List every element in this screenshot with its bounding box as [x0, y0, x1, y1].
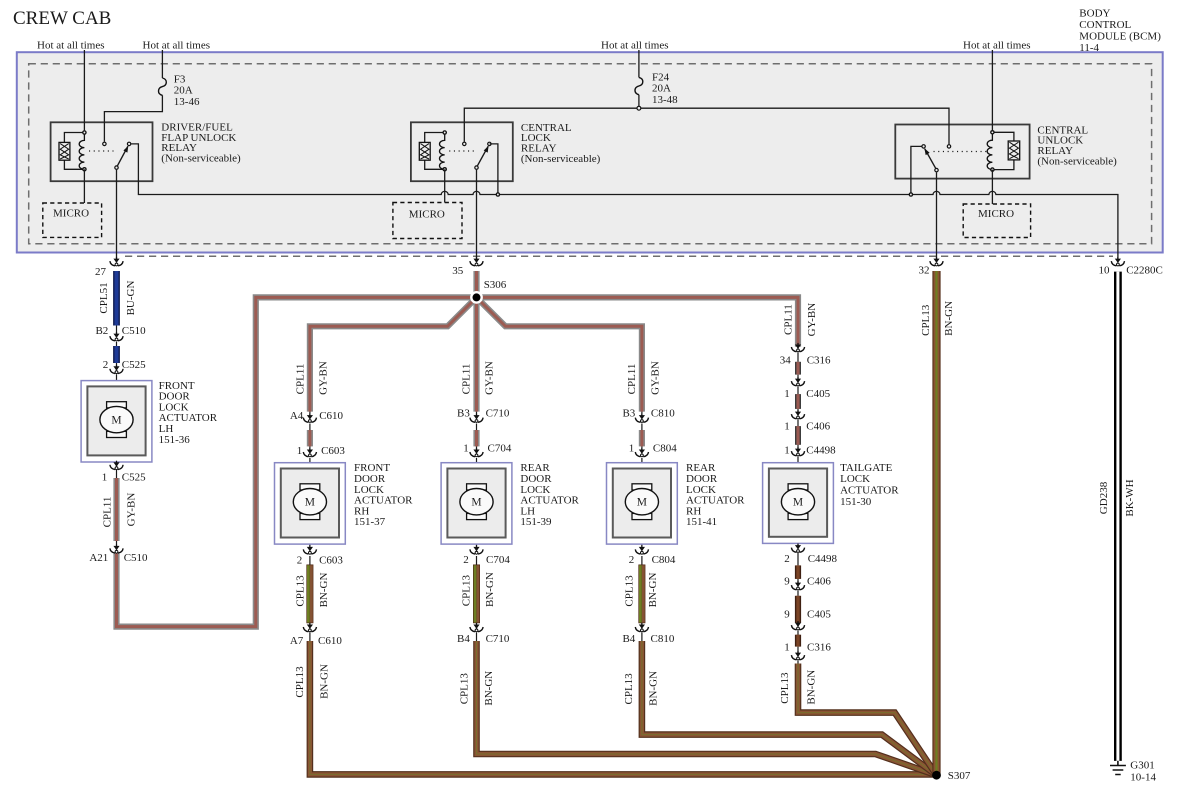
motor M of rear door lock actuator RH: [632, 484, 652, 490]
svg-text:S307: S307: [948, 770, 971, 782]
svg-text:B4: B4: [622, 633, 635, 645]
svg-text:1: 1: [784, 421, 790, 433]
BCM pin 32 connector: [930, 257, 943, 266]
svg-text:CPL13: CPL13: [460, 575, 472, 607]
svg-text:B3: B3: [622, 407, 635, 419]
BN-GN wire CPL13 tailgate to S307: [798, 664, 937, 776]
svg-text:TAILGATELOCKACTUATOR151-30: TAILGATELOCKACTUATOR151-30: [840, 462, 899, 508]
wire from F24 junction to K2 terminal: [464, 108, 637, 142]
svg-text:BK-WH: BK-WH: [1124, 479, 1136, 516]
GY-BN wire segment rear LH door: [473, 430, 479, 446]
connector C804 1: [635, 448, 648, 457]
svg-text:1: 1: [784, 642, 790, 654]
fuse F3: [159, 78, 167, 95]
K3 switch armature: [925, 149, 936, 169]
bus junction at K2 branch: [496, 192, 501, 197]
wire K3 coil to MICRO 3: [991, 170, 993, 204]
thin stubs tailgate upper column: [797, 347, 799, 463]
svg-text:CPL11: CPL11: [102, 497, 114, 528]
svg-text:FRONTDOORLOCKACTUATORLH151-36: FRONTDOORLOCKACTUATORLH151-36: [159, 380, 218, 446]
svg-text:CPL13: CPL13: [294, 666, 306, 698]
svg-text:CPL13: CPL13: [624, 575, 636, 607]
thin stubs below actuator LH: [116, 462, 118, 478]
K1 fuse-side terminal: [103, 142, 106, 145]
motor M of front door lock actuator LH: [107, 402, 127, 408]
K2 switch armature: [477, 146, 488, 166]
junction node below F24: [637, 106, 641, 110]
svg-text:35: 35: [452, 265, 464, 277]
hot-at-all-times feed wire to K3 coil: [991, 50, 993, 130]
svg-text:GY-BN: GY-BN: [484, 361, 496, 395]
thin stubs front RH column: [309, 412, 311, 463]
central lock relay K2 resistor branch wires: [425, 133, 445, 170]
svg-text:C405: C405: [807, 608, 831, 620]
K3 switch pivot terminal: [935, 168, 938, 171]
svg-text:9: 9: [784, 576, 790, 588]
BU-GN wire C510 to C525: [113, 346, 120, 363]
svg-text:CPL51: CPL51: [98, 282, 110, 313]
svg-text:1: 1: [629, 442, 635, 454]
BU-GN wire CPL51 pin 27 to C510: [113, 271, 120, 326]
connector C710 B4: [470, 623, 483, 632]
thin stubs rear LH column: [476, 412, 478, 463]
svg-text:Hot at all times: Hot at all times: [143, 39, 211, 51]
svg-text:GY-BN: GY-BN: [317, 361, 329, 395]
BN-GN wire CPL13 rear RH door to S307: [642, 641, 937, 775]
svg-text:C810: C810: [651, 633, 675, 645]
K1 actuation dotted line: [89, 150, 114, 152]
svg-text:BN-GN: BN-GN: [647, 573, 659, 608]
svg-text:C610: C610: [319, 410, 343, 422]
wire from K1 pivot to pin 27: [116, 170, 118, 262]
wire stub into C510: [116, 326, 118, 335]
K2 fuse-side terminal: [463, 142, 466, 145]
thin stubs below rear LH actuator: [476, 544, 478, 641]
relay coil, central lock relay K2: [439, 133, 444, 170]
svg-text:C704: C704: [488, 442, 512, 454]
connector C603 1: [303, 448, 316, 457]
svg-text:CPL13: CPL13: [459, 673, 471, 705]
MICRO driver box 3: [963, 204, 1030, 238]
svg-text:FRONTDOORLOCKACTUATORRH151-37: FRONTDOORLOCKACTUATORRH151-37: [354, 462, 413, 528]
relay coil, driver/fuel flap unlock relay K1: [79, 133, 84, 170]
svg-text:C710: C710: [486, 633, 510, 645]
connector C704 1: [470, 448, 483, 457]
svg-text:BN-GN: BN-GN: [805, 670, 817, 705]
svg-text:2: 2: [297, 555, 303, 567]
relay box: central unlock relay K3: [895, 125, 1029, 179]
BCM module box (blue): [17, 52, 1163, 252]
ground symbol G301: [1110, 761, 1126, 775]
K2 actuation dotted line: [449, 150, 476, 152]
svg-text:2: 2: [784, 553, 790, 565]
BCM pin 27 connector: [110, 257, 123, 266]
svg-text:C810: C810: [651, 407, 675, 419]
thin stubs below rear RH actuator: [641, 544, 643, 641]
svg-text:C525: C525: [122, 471, 146, 483]
thin stubs rear RH column: [641, 412, 643, 463]
svg-text:BN-GN: BN-GN: [319, 664, 331, 699]
BN-GN wire CPL13 pin 32 to S307: [932, 271, 940, 775]
connector C525 pin 2: [110, 365, 123, 374]
svg-text:GD238: GD238: [1098, 481, 1110, 514]
svg-text:C316: C316: [807, 642, 831, 654]
svg-text:A7: A7: [290, 635, 304, 647]
svg-text:M: M: [305, 497, 315, 509]
connector C810 B4: [635, 623, 648, 632]
K1 armature arrowhead: [123, 146, 128, 153]
wire through rear LH actuator: [476, 463, 478, 544]
resistor (coil suppression), K3: [1008, 141, 1020, 160]
svg-text:C510: C510: [122, 325, 146, 337]
svg-text:C2280C: C2280C: [1126, 265, 1163, 277]
svg-text:1: 1: [784, 388, 790, 400]
motor M of rear door lock actuator LH: [467, 484, 487, 490]
svg-text:C406: C406: [807, 576, 831, 588]
connector C603 2: [303, 545, 316, 554]
svg-text:BN-GN: BN-GN: [483, 671, 495, 706]
svg-text:BU-GN: BU-GN: [125, 281, 137, 316]
svg-text:1: 1: [102, 471, 108, 483]
resistor (relay coil suppression), driver/fuel flap unlock relay K1: [59, 142, 70, 160]
svg-text:MICRO: MICRO: [409, 209, 445, 221]
BN-GN wire CPL13 segment below rear LH actuator: [475, 565, 478, 624]
svg-text:M: M: [793, 497, 803, 509]
rear door lock actuator RH box: [607, 463, 678, 544]
svg-text:CPL13: CPL13: [623, 673, 635, 705]
K1 switch pivot terminal: [115, 166, 118, 169]
GY-BN wire CPL11 loop from A21/C510 to splice S306: [117, 297, 472, 626]
svg-text:M: M: [111, 415, 121, 427]
svg-text:CPL11: CPL11: [783, 304, 795, 335]
BN-GN wire CPL13 segment below rear RH actuator: [640, 565, 643, 624]
svg-text:C804: C804: [653, 442, 677, 454]
K2 armature arrowhead: [484, 146, 489, 153]
K3 armature arrowhead: [924, 148, 929, 155]
svg-text:CPL11: CPL11: [294, 364, 306, 395]
connector C810 B3: [635, 414, 648, 423]
svg-text:9: 9: [784, 608, 790, 620]
K2 switch pivot terminal: [475, 166, 478, 169]
K3 switch output terminal: [922, 145, 925, 148]
splice S306: [470, 291, 483, 304]
BN-GN wire CPL13 segment below front RH actuator: [308, 565, 311, 624]
svg-text:10: 10: [1099, 265, 1111, 277]
svg-text:A21: A21: [89, 552, 108, 564]
svg-text:M: M: [637, 497, 647, 509]
svg-text:CPL13: CPL13: [295, 575, 307, 607]
BK-WH wire GD228 pin 10 to ground G301: [1114, 272, 1122, 761]
K1 switch output terminal: [127, 142, 130, 145]
svg-text:BODYCONTROLMODULE (BCM)11-4: BODYCONTROLMODULE (BCM)11-4: [1079, 8, 1161, 55]
svg-text:CPL11: CPL11: [461, 364, 473, 395]
BN-GN wire segment C406-C405 (tailgate): [795, 596, 801, 623]
bus junction at K3 branch: [909, 192, 914, 197]
svg-text:GY-BN: GY-BN: [649, 361, 661, 395]
connector C510 pin A21: [110, 544, 123, 553]
svg-text:Hot at all times: Hot at all times: [601, 39, 669, 51]
svg-text:Hot at all times: Hot at all times: [37, 39, 105, 51]
relay coil, K3: [987, 132, 992, 169]
wire K1 coil to MICRO 1: [83, 169, 85, 203]
wire from fuse F3 to K1 terminal: [104, 95, 162, 142]
svg-text:GY-BN: GY-BN: [126, 493, 138, 527]
K1 switch armature: [117, 146, 128, 166]
svg-text:C704: C704: [486, 554, 510, 566]
svg-text:C610: C610: [318, 635, 342, 647]
K3 actuation dotted line: [934, 151, 988, 153]
svg-text:2: 2: [629, 554, 635, 566]
GY-BN wire segment rear RH door: [639, 430, 645, 446]
GY-BN wire S306 to C316 (tailgate column): [477, 297, 799, 346]
svg-text:B4: B4: [457, 633, 470, 645]
K2 switch output branch wire: [490, 144, 498, 195]
svg-text:34: 34: [780, 355, 792, 367]
svg-text:32: 32: [919, 264, 930, 276]
wire through front RH actuator: [309, 463, 311, 544]
svg-text:1: 1: [784, 445, 790, 457]
svg-text:CPL13: CPL13: [920, 304, 932, 336]
connector C510 pin B2: [110, 332, 123, 341]
rear door lock actuator LH box: [441, 463, 512, 544]
connector C525 pin 1: [110, 461, 123, 470]
connector C4498 pin 1: [791, 447, 804, 456]
wire through tailgate actuator: [797, 463, 799, 544]
GY-BN wire CPL11 actuator LH to C510: [113, 478, 119, 541]
svg-text:CREW CAB: CREW CAB: [13, 8, 111, 29]
wire K2 coil to MICRO 2: [444, 169, 446, 202]
fuse F24: [635, 77, 643, 94]
connector C804 2: [635, 545, 648, 554]
svg-text:MICRO: MICRO: [53, 207, 89, 219]
wire stub into C510 A21: [116, 541, 118, 549]
BCM pin 10 connector C2280C: [1111, 257, 1124, 266]
svg-text:DRIVER/FUELFLAP UNLOCKRELAY(No: DRIVER/FUELFLAP UNLOCKRELAY(Non-servicea…: [161, 121, 241, 164]
svg-text:C804: C804: [652, 554, 676, 566]
driver/fuel flap unlock relay K1 coil bottom junction: [82, 167, 87, 172]
svg-text:REARDOORLOCKACTUATORLH151-39: REARDOORLOCKACTUATORLH151-39: [520, 462, 579, 528]
wire from F24 junction to K3 terminal: [641, 108, 949, 144]
wire through rear RH actuator: [641, 463, 643, 544]
tailgate lock actuator box: [763, 463, 834, 544]
connector C710 B3: [470, 414, 483, 423]
relay box: driver/fuel flap unlock relay K1: [51, 122, 153, 181]
svg-text:S306: S306: [484, 279, 507, 291]
svg-text:BN-GN: BN-GN: [484, 572, 496, 607]
BN-GN wire segment C405-C316 (tailgate): [795, 635, 801, 647]
svg-text:C510: C510: [124, 552, 148, 564]
wire segment C406-C4498 (tailgate): [795, 426, 801, 445]
wire through actuator LH: [116, 381, 118, 462]
svg-text:27: 27: [95, 266, 107, 278]
GY-BN wire pin 35 to S306: [473, 271, 479, 292]
BN-GN wire CPL13 front RH door to S307: [310, 641, 937, 774]
connector C316 pin 34: [791, 343, 804, 352]
MICRO driver box 2: [393, 203, 462, 239]
svg-text:B2: B2: [95, 325, 108, 337]
hot-at-all-times feed wire to fuse F24: [638, 50, 640, 77]
connector C610 A7: [303, 623, 316, 632]
svg-text:1: 1: [463, 442, 469, 454]
thin stubs below front RH actuator: [309, 544, 311, 641]
hot-at-all-times feed wire to K1 coil: [83, 50, 85, 130]
wire segment C405-C406 (tailgate): [795, 394, 801, 409]
connector C610 A4: [303, 414, 316, 423]
svg-text:MICRO: MICRO: [978, 208, 1014, 220]
dashed harness boundary below BCM: [125, 255, 1113, 257]
wire from K2 pivot to pin 35: [476, 170, 478, 262]
K3 coil bottom junction: [990, 167, 995, 172]
svg-text:REARDOORLOCKACTUATORRH151-41: REARDOORLOCKACTUATORRH151-41: [686, 462, 745, 528]
BN-GN wire CPL13 rear LH door to S307: [477, 641, 937, 775]
svg-text:C603: C603: [319, 555, 343, 567]
svg-text:G30110-14: G30110-14: [1130, 759, 1156, 783]
GY-BN wire segment front RH door: [307, 430, 313, 446]
switch output bus wire from K1 to pin 10: [131, 144, 1118, 262]
svg-text:2: 2: [103, 359, 109, 371]
svg-text:BN-GN: BN-GN: [318, 573, 330, 608]
svg-text:B3: B3: [457, 407, 470, 419]
svg-text:C406: C406: [806, 421, 830, 433]
svg-text:C710: C710: [486, 407, 510, 419]
svg-text:C603: C603: [321, 445, 345, 457]
front door lock actuator LH box: [81, 381, 152, 462]
driver/fuel flap unlock relay K1 coil top junction: [82, 130, 87, 135]
svg-text:1: 1: [297, 445, 303, 457]
wire segment C316-C405 (tailgate): [795, 362, 801, 375]
svg-text:BN-GN: BN-GN: [943, 301, 955, 336]
BCM inner dashed boundary: [29, 64, 1152, 244]
svg-text:C4498: C4498: [808, 553, 838, 565]
thin stubs tailgate lower column: [797, 543, 799, 663]
svg-text:BN-GN: BN-GN: [648, 671, 660, 706]
K2 switch output terminal: [488, 142, 491, 145]
connector C405 pin 9: [791, 621, 804, 630]
GY-BN wire S306 to C610 (front RH column): [310, 297, 477, 411]
svg-text:A4: A4: [290, 410, 304, 422]
K3 fuse-side terminal: [947, 145, 950, 148]
GY-BN wire S306 to C810 (rear RH column): [477, 297, 642, 411]
central lock relay K2 coil bottom junction: [442, 167, 447, 172]
svg-text:CPL13: CPL13: [779, 672, 791, 704]
K3 coil top junction: [990, 130, 995, 135]
resistor (relay coil suppression), central lock relay K2: [419, 142, 430, 160]
central lock relay K2 coil top junction: [442, 130, 447, 135]
connector C316 pin 1: [791, 651, 804, 660]
connector C406 pin 9: [791, 581, 804, 590]
svg-text:C405: C405: [806, 388, 830, 400]
svg-text:C525: C525: [122, 359, 146, 371]
BCM pin 35 connector: [470, 257, 483, 266]
splice S307: [932, 771, 941, 780]
svg-text:Hot at all times: Hot at all times: [963, 39, 1031, 51]
svg-text:M: M: [471, 497, 481, 509]
K3 switch input branch wire: [911, 146, 922, 194]
K3 resistor branch wires: [992, 132, 1014, 169]
svg-text:C4498: C4498: [806, 445, 836, 457]
motor M of front door lock actuator RH: [300, 484, 320, 490]
GY-BN wire S306 down to C710 (rear LH column): [473, 297, 479, 411]
MICRO driver box 1: [43, 203, 102, 237]
svg-text:2: 2: [463, 554, 469, 566]
svg-text:CPL11: CPL11: [626, 364, 638, 395]
relay box: central lock relay K2: [411, 122, 513, 181]
hot-at-all-times feed wire to fuse F3: [161, 50, 163, 78]
BN-GN wire segment C4498-C406 (tailgate): [795, 565, 801, 579]
connector C405 pin 1: [791, 377, 804, 386]
driver/fuel flap unlock relay K1 resistor branch wires: [64, 133, 84, 170]
wire from K3 pivot to pin 32: [936, 172, 938, 261]
wire from fuse F24 down to junction: [638, 95, 640, 107]
svg-text:GY-BN: GY-BN: [806, 303, 818, 337]
svg-text:C316: C316: [807, 355, 831, 367]
connector C4498 pin 2: [791, 544, 804, 553]
connector C704 2: [470, 545, 483, 554]
connector C406 pin 1: [791, 410, 804, 419]
front door lock actuator RH box: [275, 463, 346, 544]
motor M of tailgate lock actuator: [788, 484, 808, 490]
thin stubs around C525: [116, 342, 118, 381]
